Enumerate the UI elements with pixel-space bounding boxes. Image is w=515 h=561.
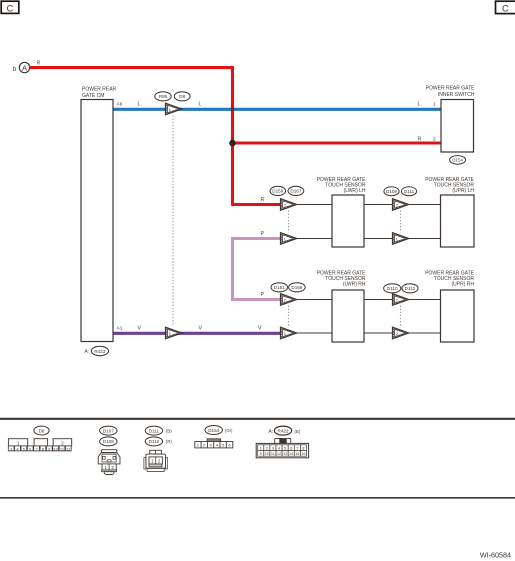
svg-text:2: 2 — [169, 331, 171, 336]
svg-text:WI-60584: WI-60584 — [480, 551, 511, 560]
svg-text:b: b — [13, 66, 17, 73]
footer separator bottom — [0, 497, 515, 499]
footer connector D108 label — [100, 437, 117, 446]
frame label C (top-right) — [496, 1, 515, 13]
svg-text:R422: R422 — [278, 428, 289, 433]
svg-text:9: 9 — [260, 452, 262, 456]
wire crossing blend L/R — [231, 108, 234, 111]
svg-text:C: C — [502, 3, 509, 13]
footer connector D8 pinout — [8, 439, 71, 452]
svg-text:2: 2 — [266, 446, 268, 450]
svg-text:4: 4 — [278, 446, 280, 450]
svg-text:2: 2 — [284, 297, 286, 302]
svg-text:C: C — [7, 3, 14, 13]
svg-text:R: R — [37, 61, 41, 67]
svg-text:(LWR) LH: (LWR) LH — [344, 188, 366, 194]
component TOUCH SENSOR (LWR) RH — [317, 270, 366, 342]
svg-text:D159: D159 — [272, 189, 283, 194]
connector oval D109 — [384, 187, 399, 196]
connector triangle D109/D111 upper, pin 2 — [393, 199, 409, 211]
svg-text:POWER REAR: POWER REAR — [82, 87, 117, 93]
footer connector D154 label — [205, 426, 233, 435]
connector oval D8 — [174, 92, 190, 101]
svg-text:D154: D154 — [208, 428, 219, 433]
svg-text:D168: D168 — [291, 285, 302, 290]
svg-text:(B): (B) — [295, 429, 301, 434]
svg-text:A1: A1 — [117, 326, 123, 332]
dashed pair link D151/D168 — [288, 306, 290, 327]
svg-text:1: 1 — [260, 446, 262, 450]
connector oval D159 — [270, 186, 286, 195]
svg-text:14: 14 — [289, 452, 293, 456]
footer connector D8 label — [34, 426, 49, 435]
dashed pair link D159/D167 — [288, 211, 290, 233]
svg-text:11: 11 — [271, 452, 275, 456]
svg-text:12: 12 — [277, 452, 281, 456]
wire R branch to inner switch pin 2 — [233, 141, 442, 144]
svg-text:A:: A: — [85, 349, 90, 355]
wire black row2 lower (tri to LWR RH) — [297, 332, 333, 334]
svg-text:2: 2 — [111, 465, 114, 470]
svg-text:R422: R422 — [94, 349, 105, 354]
svg-text:D109: D109 — [386, 189, 397, 194]
dashed pair link R85/D8 — [172, 116, 174, 327]
component TOUCH SENSOR (UPR) RH — [425, 270, 474, 342]
svg-text:D111: D111 — [149, 428, 160, 433]
svg-text:3: 3 — [272, 446, 274, 450]
frame label C (top-left) — [1, 1, 19, 13]
footer connector D112 label — [145, 437, 172, 446]
connector oval D111 — [401, 187, 416, 196]
svg-text:R85: R85 — [159, 94, 168, 99]
footer connector D154 pinout — [195, 439, 233, 448]
svg-text:16: 16 — [301, 452, 305, 456]
svg-text:D8: D8 — [179, 94, 185, 99]
connector triangle D151/D168 on V wire, pin 1 — [281, 327, 297, 339]
connector triangle D110/D112 lower, pin 2 — [393, 327, 409, 339]
svg-text:(LWR) RH: (LWR) RH — [343, 281, 366, 287]
svg-text:1: 1 — [151, 459, 154, 464]
svg-text:1: 1 — [284, 331, 286, 336]
footer connector A: R422 label — [269, 426, 301, 435]
svg-text:(UPR) RH: (UPR) RH — [452, 281, 475, 287]
svg-text:1: 1 — [433, 102, 436, 108]
svg-text:A:: A: — [269, 429, 274, 435]
wire black row1 upper (tri to UPR LH) — [409, 204, 441, 206]
svg-text:D151: D151 — [274, 285, 285, 290]
connector triangle D159/D167 on P wire, pin 1 — [281, 233, 297, 245]
svg-text:GATE CM: GATE CM — [82, 93, 104, 99]
wire R vertical — [231, 66, 234, 204]
wire R row1 to touch sensor LWR LH — [231, 203, 281, 206]
wire black row2 lower (tri to UPR RH) — [409, 332, 441, 334]
svg-text:D111: D111 — [404, 189, 415, 194]
svg-text:D167: D167 — [290, 189, 301, 194]
svg-text:L: L — [199, 102, 202, 108]
wire black row1 upper (LWR to tri) — [364, 204, 393, 206]
svg-text:(UPR) LH: (UPR) LH — [452, 188, 474, 194]
connector triangle D109/D111 lower, pin 1 — [393, 233, 409, 245]
svg-text:D107: D107 — [103, 428, 114, 433]
svg-text:D8: D8 — [39, 428, 45, 433]
svg-text:1: 1 — [396, 236, 398, 241]
component POWER REAR GATE CM — [81, 87, 117, 342]
wire black row2 lower (LWR to tri) — [364, 332, 393, 334]
svg-text:D110: D110 — [387, 286, 398, 291]
footer connector D107/D108 pinout — [98, 450, 120, 475]
svg-text:A6: A6 — [117, 102, 123, 108]
svg-text:V: V — [199, 326, 203, 332]
svg-text:6: 6 — [290, 446, 292, 450]
svg-text:D108: D108 — [103, 439, 114, 444]
svg-text:L: L — [138, 102, 141, 108]
footer connector D111 label — [145, 426, 172, 435]
wire black row1 lower (LWR to tri) — [364, 238, 393, 240]
svg-text:1: 1 — [17, 440, 20, 445]
svg-text:10: 10 — [53, 446, 58, 451]
footer separator top — [0, 418, 515, 420]
svg-text:12: 12 — [66, 446, 71, 451]
svg-text:8: 8 — [302, 446, 304, 450]
svg-text:1: 1 — [104, 465, 107, 470]
footer connector D107 label — [100, 426, 117, 435]
connector triangle D110/D112 upper, pin 1 — [393, 294, 409, 306]
svg-text:2: 2 — [433, 136, 436, 142]
wire black row1 upper (tri to LWR LH) — [297, 204, 333, 206]
svg-text:R: R — [261, 197, 265, 203]
terminal A (b) — [13, 62, 30, 73]
svg-text:D112: D112 — [405, 286, 416, 291]
svg-text:5: 5 — [284, 446, 286, 450]
svg-text:1: 1 — [169, 107, 171, 112]
svg-text:POWER REAR GATE: POWER REAR GATE — [426, 86, 475, 92]
svg-text:V: V — [258, 326, 262, 332]
svg-text:13: 13 — [283, 452, 287, 456]
svg-text:2: 2 — [396, 331, 398, 336]
connector oval R85 — [155, 92, 171, 101]
connector oval D151 — [271, 283, 288, 292]
connector triangle R85/D8 on V wire, pin 2 — [166, 327, 182, 339]
svg-text:2: 2 — [396, 202, 398, 207]
svg-text:(B): (B) — [166, 428, 172, 433]
wire R top horizontal — [30, 66, 235, 69]
connector label D154 under inner switch — [450, 156, 466, 165]
connector oval D110 — [384, 284, 401, 293]
wire V purple — [113, 332, 281, 335]
wire L blue — [113, 108, 441, 111]
wire black row1 lower (tri to UPR LH) — [409, 238, 441, 240]
connector oval D112 — [402, 284, 418, 293]
svg-text:1: 1 — [396, 297, 398, 302]
svg-text:D112: D112 — [149, 439, 160, 444]
svg-text:P: P — [261, 292, 265, 298]
svg-text:2: 2 — [61, 440, 64, 445]
svg-text:10: 10 — [265, 452, 269, 456]
connector triangle D159/D167 on R wire, pin 2 — [281, 199, 297, 211]
wire black row2 upper (tri to UPR RH) — [409, 299, 441, 301]
svg-text:V: V — [138, 326, 142, 332]
component TOUCH SENSOR (LWR) LH — [317, 177, 366, 247]
wire black row2 upper (tri to LWR RH) — [297, 299, 333, 301]
svg-text:(R): (R) — [166, 439, 172, 444]
dashed pair link D109/D111 — [400, 211, 402, 233]
svg-text:INNER SWITCH: INNER SWITCH — [438, 92, 475, 98]
connector label A: R422 under CM — [85, 346, 109, 355]
svg-text:D154: D154 — [452, 158, 463, 163]
wire black row1 lower (tri to LWR LH) — [297, 238, 333, 240]
svg-text:7: 7 — [296, 446, 298, 450]
svg-text:L: L — [418, 102, 421, 108]
connector triangle R85/D8 on L wire, pin 1 — [166, 103, 182, 115]
component TOUCH SENSOR (UPR) LH — [425, 177, 474, 247]
svg-text:2: 2 — [158, 459, 161, 464]
dashed pair link D110/D112 — [400, 306, 402, 327]
connector oval D168 — [289, 283, 306, 292]
connector triangle D151/D168 on P wire, pin 2 — [281, 294, 297, 306]
svg-text:2: 2 — [284, 202, 286, 207]
svg-text:1: 1 — [284, 236, 286, 241]
svg-text:15: 15 — [295, 452, 299, 456]
junction node — [229, 140, 236, 147]
wire P pink jumper — [233, 239, 281, 300]
component POWER REAR GATE INNER SWITCH — [426, 86, 475, 152]
svg-text:P: P — [261, 231, 265, 237]
svg-text:(Gr): (Gr) — [225, 428, 233, 433]
svg-text:R: R — [418, 136, 422, 142]
footer connector D111/D112 pinout — [144, 450, 168, 471]
footer connector R422 pinout — [256, 438, 308, 457]
wire black row2 upper (LWR to tri) — [364, 299, 393, 301]
connector oval D167 — [288, 186, 304, 195]
